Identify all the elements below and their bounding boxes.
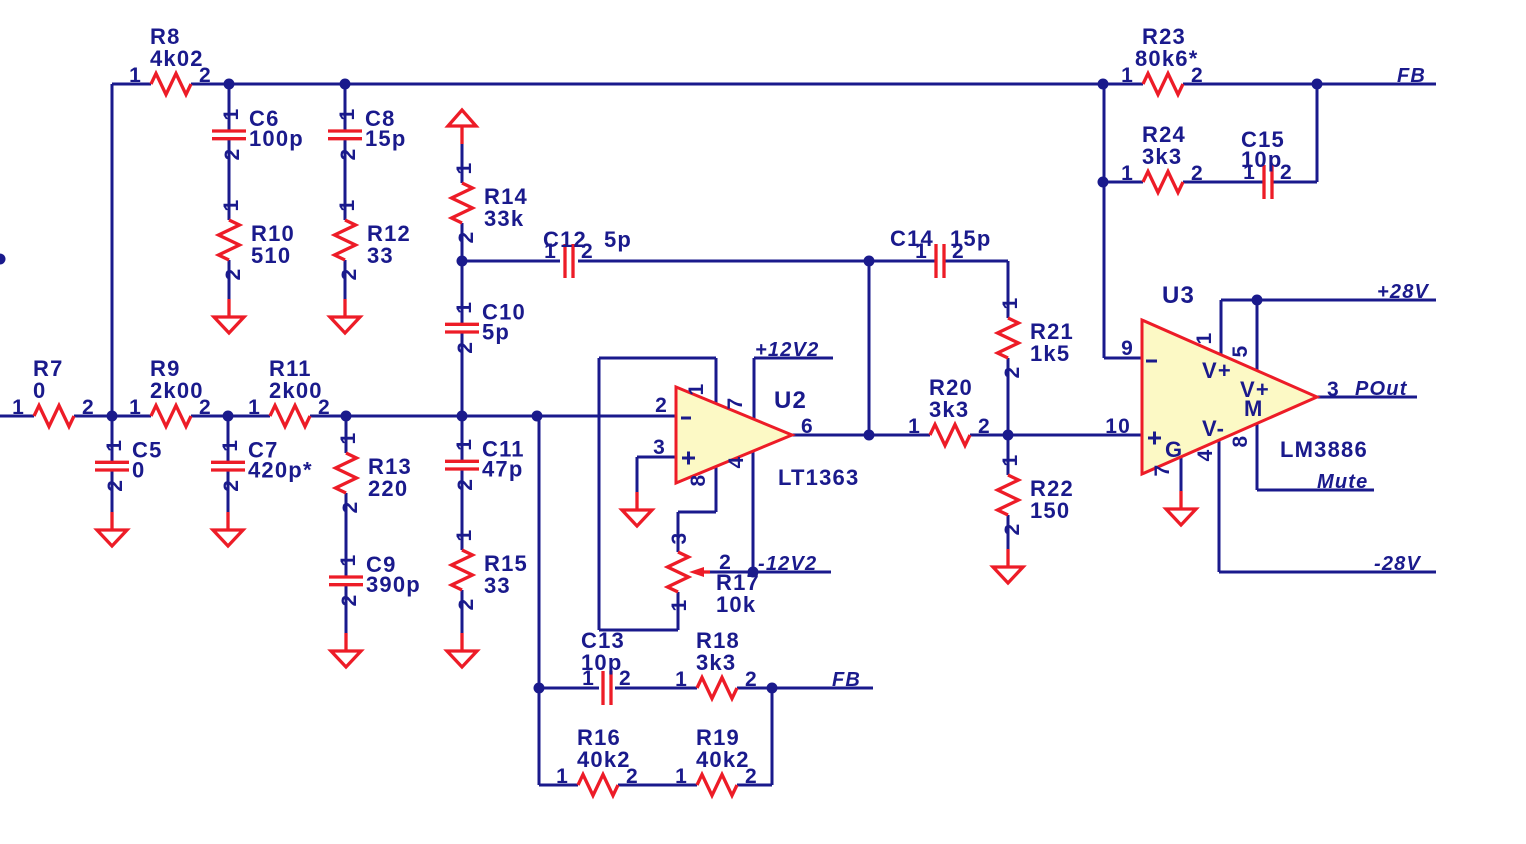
- svg-text:3: 3: [653, 436, 666, 459]
- wire U2 pin 8 branch horizontal: [678, 511, 716, 514]
- svg-text:1: 1: [675, 765, 688, 788]
- junction off-page at left edge: [0, 254, 6, 265]
- svg-text:220: 220: [368, 476, 408, 501]
- wire C8 to R12: [344, 139, 347, 220]
- svg-text:4: 4: [725, 456, 748, 469]
- wire input to R7: [0, 415, 34, 418]
- ground under C5: [97, 512, 127, 546]
- wire node to R24: [1104, 181, 1143, 184]
- svg-text:5p: 5p: [604, 227, 632, 252]
- svg-text:7: 7: [1151, 464, 1174, 477]
- resistor R15: [452, 529, 528, 611]
- capacitor C8: [328, 106, 407, 160]
- wire U2 pin 6 output to R20: [792, 434, 930, 437]
- svg-text:2: 2: [1280, 161, 1293, 184]
- svg-text:LT1363: LT1363: [778, 465, 859, 490]
- resistor R21: [998, 297, 1074, 379]
- resistor R14: [452, 162, 528, 244]
- U3 inverting input mark: [1146, 360, 1157, 363]
- resistor R18: [675, 628, 758, 699]
- wire R17 pin 3 to pin 8 branch: [677, 512, 680, 552]
- svg-text:1: 1: [544, 240, 557, 263]
- svg-text:8: 8: [1229, 435, 1252, 448]
- capacitor C11: [445, 436, 525, 490]
- svg-text:G: G: [1165, 437, 1183, 462]
- svg-text:2: 2: [1001, 366, 1024, 379]
- wire U3 pin 8 vertical: [1256, 423, 1259, 490]
- wire C9 to ground: [345, 585, 348, 633]
- junction C6 / top rail: [224, 79, 235, 90]
- svg-text:2: 2: [339, 501, 362, 514]
- resistor R7: [12, 356, 95, 427]
- wire U2 trim loop bottom: [599, 629, 678, 632]
- resistor R9: [129, 356, 212, 427]
- svg-text:2: 2: [338, 594, 361, 607]
- capacitor C14: [890, 226, 992, 278]
- svg-text:2: 2: [978, 415, 991, 438]
- capacitor C7: [211, 437, 313, 491]
- svg-text:100p: 100p: [249, 126, 304, 151]
- wire C12 to C14: [578, 260, 936, 263]
- svg-text:2: 2: [455, 598, 478, 611]
- capacitor C12: [543, 227, 632, 278]
- wire R11 to U2 pin 2: [310, 415, 676, 418]
- junction C8 / top rail: [340, 79, 351, 90]
- junction C13 / R16 branch: [534, 683, 545, 694]
- wire C13 to R18: [615, 687, 697, 690]
- junction U2 pin 4 / -12V2: [748, 567, 759, 578]
- wire output row to R22: [1007, 435, 1010, 475]
- svg-text:80k6*: 80k6*: [1135, 46, 1199, 71]
- wire R12 to ground: [344, 260, 347, 299]
- resistor R23: [1121, 24, 1204, 95]
- potentiometer R17 10k: [668, 532, 760, 617]
- svg-text:V+: V+: [1202, 358, 1232, 383]
- wire power arrow to R14: [461, 144, 464, 183]
- svg-text:1: 1: [675, 668, 688, 691]
- svg-text:1: 1: [1121, 162, 1134, 185]
- resistor R8: [129, 24, 212, 95]
- wire R9 to R11: [191, 415, 270, 418]
- wire R7 to R9: [74, 415, 151, 418]
- wire node to C10: [461, 261, 464, 324]
- svg-text:3k3: 3k3: [1142, 144, 1182, 169]
- junction R18 / R19 branch: [767, 683, 778, 694]
- svg-text:1: 1: [129, 396, 142, 419]
- svg-text:4: 4: [1194, 449, 1217, 462]
- svg-text:9: 9: [1121, 337, 1134, 360]
- wire C11 to R15: [461, 469, 464, 550]
- wire input node down to C13 network: [538, 416, 541, 688]
- capacitor C15: [1241, 127, 1293, 199]
- svg-text:1: 1: [336, 199, 359, 212]
- junction R20 / R21 / R22: [1003, 430, 1014, 441]
- svg-text:1: 1: [453, 162, 476, 175]
- svg-text:1: 1: [219, 439, 242, 452]
- svg-text:1: 1: [582, 667, 595, 690]
- resistor R19: [675, 725, 758, 796]
- svg-text:5p: 5p: [482, 319, 510, 344]
- wire R22 to ground: [1007, 515, 1010, 549]
- wire node to C12: [462, 260, 560, 263]
- svg-text:1: 1: [248, 396, 261, 419]
- svg-text:U2: U2: [774, 387, 807, 414]
- wire top rail to C8: [344, 84, 347, 131]
- svg-text:0: 0: [33, 378, 46, 403]
- svg-text:3k3: 3k3: [696, 650, 736, 675]
- svg-text:2k00: 2k00: [150, 378, 204, 403]
- svg-text:+12V2: +12V2: [755, 339, 819, 361]
- svg-text:1: 1: [915, 240, 928, 263]
- svg-text:2: 2: [719, 551, 732, 574]
- svg-text:2: 2: [581, 240, 594, 263]
- svg-text:40k2: 40k2: [577, 747, 631, 772]
- svg-text:5: 5: [1229, 345, 1252, 358]
- wire input row to R13: [345, 416, 348, 453]
- svg-text:U3: U3: [1162, 282, 1195, 309]
- wire U2 pin 3 stub: [637, 456, 676, 459]
- wire C7 to ground: [227, 470, 230, 512]
- wire node to C13: [539, 687, 599, 690]
- U2 non-inverting input mark: [682, 457, 695, 460]
- wire R19 to corner: [737, 784, 772, 787]
- svg-text:1: 1: [453, 438, 476, 451]
- svg-text:2: 2: [454, 478, 477, 491]
- svg-text:33: 33: [484, 573, 511, 598]
- junction U3 pin 5 / +28V: [1252, 295, 1263, 306]
- svg-text:10k: 10k: [716, 592, 756, 617]
- junction C15 branch / top rail: [1312, 79, 1323, 90]
- svg-text:1: 1: [1193, 332, 1216, 345]
- svg-text:M: M: [1244, 396, 1264, 421]
- svg-text:LM3886: LM3886: [1280, 437, 1368, 462]
- wire R10 to ground: [228, 260, 231, 299]
- svg-text:420p*: 420p*: [248, 457, 313, 482]
- U3 non-inverting input mark: [1148, 437, 1161, 440]
- wire C6 to R10: [228, 139, 231, 220]
- svg-text:2: 2: [220, 479, 243, 492]
- junction R24 / FB node: [1098, 177, 1109, 188]
- wire +12V2 rail: [754, 357, 833, 360]
- svg-text:2: 2: [199, 64, 212, 87]
- wire corner down to R21: [1007, 261, 1010, 318]
- svg-text:2: 2: [454, 341, 477, 354]
- junction C12 / C14: [864, 256, 875, 267]
- wire U3 pin 4 vertical: [1218, 440, 1221, 572]
- ground under R12: [330, 299, 360, 333]
- svg-text:3: 3: [668, 532, 691, 545]
- capacitor C5: [95, 437, 163, 491]
- wire left vertical x=112: [111, 84, 114, 416]
- wire input row to C7: [227, 416, 230, 462]
- svg-text:1: 1: [556, 765, 569, 788]
- svg-text:1: 1: [999, 454, 1022, 467]
- ground under C9: [331, 633, 361, 667]
- svg-text:2: 2: [104, 479, 127, 492]
- wire C5 to ground: [111, 470, 114, 512]
- op-amp U2 LT1363: [653, 383, 859, 490]
- wire U3 pin 1 to +28V: [1220, 300, 1223, 355]
- svg-text:FB: FB: [1397, 65, 1426, 87]
- wire U2 pin 8 vertical: [715, 466, 718, 512]
- svg-text:V-: V-: [1202, 416, 1225, 441]
- junction U2 output: [864, 430, 875, 441]
- wire FB node vertical to U3 pin 9: [1103, 84, 1106, 358]
- resistor R11: [248, 356, 331, 427]
- svg-text:2: 2: [1191, 64, 1204, 87]
- resistor R12: [335, 199, 411, 281]
- junction R14 / C10 / C12: [457, 256, 468, 267]
- svg-text:40k2: 40k2: [696, 747, 750, 772]
- wire U2 trim loop top: [599, 357, 716, 360]
- junction R23 / FB node: [1098, 79, 1109, 90]
- svg-text:2: 2: [619, 667, 632, 690]
- svg-text:1: 1: [1243, 161, 1256, 184]
- ground at U2 pin 3: [622, 492, 652, 526]
- svg-text:1: 1: [999, 297, 1022, 310]
- wire top rail R23 to FB: [1183, 83, 1436, 86]
- wire input row to C11: [461, 416, 464, 461]
- svg-text:2: 2: [222, 268, 245, 281]
- capacitor C9: [329, 552, 421, 606]
- wire R16 to R19: [618, 784, 697, 787]
- svg-text:150: 150: [1030, 498, 1070, 523]
- svg-text:1: 1: [453, 301, 476, 314]
- wire C15 to corner: [1272, 181, 1317, 184]
- wire top rail R8 to R23: [191, 83, 1143, 86]
- wire R24 to C15: [1183, 181, 1264, 184]
- svg-text:2: 2: [82, 396, 95, 419]
- svg-text:1: 1: [220, 199, 243, 212]
- svg-text:2: 2: [221, 148, 244, 161]
- svg-text:390p: 390p: [366, 572, 421, 597]
- svg-text:8: 8: [687, 474, 710, 487]
- svg-text:10: 10: [1105, 415, 1131, 438]
- svg-text:3: 3: [1327, 378, 1340, 401]
- wire top rail left of R8: [112, 83, 151, 86]
- wire U2 pin 7 to +12V2: [753, 358, 756, 419]
- wire R14 to node: [461, 223, 464, 261]
- svg-text:33k: 33k: [484, 206, 524, 231]
- wire R15 to ground: [461, 590, 464, 633]
- wire C10 to input row: [461, 332, 464, 416]
- svg-text:2: 2: [745, 668, 758, 691]
- svg-text:1: 1: [12, 396, 25, 419]
- svg-text:POut: POut: [1355, 378, 1408, 400]
- wire U3 pin 3 output POut: [1317, 396, 1417, 399]
- svg-text:-12V2: -12V2: [758, 553, 817, 575]
- wire to R16: [539, 784, 578, 787]
- svg-text:2k00: 2k00: [269, 378, 323, 403]
- wire +28V rail: [1221, 299, 1436, 302]
- wire U2 trim loop left vertical: [598, 358, 601, 630]
- junction input node to feedback network: [532, 411, 543, 422]
- ground under C7: [213, 512, 243, 546]
- junction C10 / C11 column: [457, 411, 468, 422]
- capacitor C13: [581, 628, 632, 705]
- svg-text:2: 2: [655, 394, 668, 417]
- svg-text:2: 2: [338, 268, 361, 281]
- wire -28V rail: [1219, 571, 1436, 574]
- ground under R10: [214, 299, 244, 333]
- wire right vertical of R19 branch: [771, 688, 774, 785]
- svg-text:+28V: +28V: [1377, 281, 1430, 303]
- svg-text:2: 2: [337, 148, 360, 161]
- junction R7-R9 / C5: [107, 411, 118, 422]
- junction R9-R11 / C7: [223, 411, 234, 422]
- svg-text:2: 2: [626, 765, 639, 788]
- svg-text:2: 2: [952, 240, 965, 263]
- svg-text:6: 6: [801, 415, 814, 438]
- svg-text:1: 1: [1121, 64, 1134, 87]
- svg-text:1: 1: [685, 383, 708, 396]
- svg-text:0: 0: [132, 457, 145, 482]
- svg-text:510: 510: [251, 243, 291, 268]
- wire top rail to C6: [228, 84, 231, 131]
- wire R20 to U3 pin 10: [970, 434, 1142, 437]
- capacitor C10: [445, 299, 526, 353]
- svg-text:7: 7: [724, 397, 747, 410]
- svg-text:-28V: -28V: [1374, 553, 1422, 575]
- svg-text:2: 2: [745, 765, 758, 788]
- wire U2 pin 3 to ground: [636, 457, 639, 492]
- capacitor C6: [212, 106, 304, 160]
- svg-text:2: 2: [1001, 523, 1024, 536]
- ground under R15: [447, 633, 477, 667]
- wire input row to C5: [111, 416, 114, 462]
- svg-text:47p: 47p: [482, 456, 524, 481]
- svg-text:3k3: 3k3: [929, 397, 969, 422]
- svg-text:15p: 15p: [365, 126, 407, 151]
- wire U2 pin 4 to -12V2: [752, 452, 755, 572]
- wire left vertical of R16 branch: [538, 688, 541, 785]
- svg-text:1: 1: [337, 554, 360, 567]
- wire R17 pin 1 to loop bottom: [677, 592, 680, 630]
- op-amp U3 LM3886: [1105, 282, 1368, 476]
- svg-text:4k02: 4k02: [150, 46, 204, 71]
- svg-text:2: 2: [455, 231, 478, 244]
- svg-text:Mute: Mute: [1317, 471, 1368, 493]
- wire R13 to C9: [345, 493, 348, 577]
- svg-text:2: 2: [318, 396, 331, 419]
- junction R11 / R13: [341, 411, 352, 422]
- wire C15 corner up to top rail: [1316, 84, 1319, 182]
- U2 inverting input mark: [681, 417, 691, 420]
- resistor R10: [219, 199, 295, 281]
- wire R18 to FB: [737, 687, 873, 690]
- resistor R22: [998, 454, 1074, 536]
- svg-text:1: 1: [220, 108, 243, 121]
- power arrow +supply at top of R14: [448, 110, 476, 144]
- svg-text:FB: FB: [832, 669, 861, 691]
- svg-text:33: 33: [367, 243, 394, 268]
- svg-text:1: 1: [668, 599, 691, 612]
- svg-text:2: 2: [199, 396, 212, 419]
- wire -12V2 rail: [710, 571, 831, 574]
- svg-text:1: 1: [453, 529, 476, 542]
- wire C12/C14 node to U2 output node: [868, 261, 871, 435]
- wire U3 pin 8 Mute: [1257, 489, 1374, 492]
- svg-text:1: 1: [103, 439, 126, 452]
- resistor R16: [556, 725, 639, 796]
- svg-text:1k5: 1k5: [1030, 341, 1070, 366]
- svg-text:1: 1: [129, 64, 142, 87]
- ground under R22: [993, 549, 1023, 583]
- wire U3 pin 7 to ground: [1180, 457, 1183, 491]
- wire C14 to corner: [944, 260, 1008, 263]
- svg-text:1: 1: [337, 432, 360, 445]
- svg-text:1: 1: [908, 415, 921, 438]
- resistor R13: [336, 432, 412, 514]
- resistor R20: [908, 375, 991, 446]
- svg-text:2: 2: [1191, 162, 1204, 185]
- wire U3 pin 5 to +28V: [1256, 300, 1259, 371]
- wire to U3 pin 9: [1104, 357, 1142, 360]
- ground at U3 pin 7: [1166, 491, 1196, 525]
- wire R21 to output row: [1007, 358, 1010, 435]
- wire U2 pin 1 vertical: [715, 358, 718, 404]
- svg-text:1: 1: [336, 108, 359, 121]
- resistor R24: [1121, 122, 1204, 193]
